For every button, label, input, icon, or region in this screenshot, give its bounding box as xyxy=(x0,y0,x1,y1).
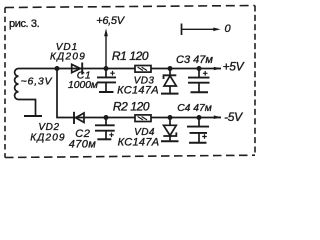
svg-text:+6,5V: +6,5V xyxy=(96,15,126,27)
svg-text:1000м: 1000м xyxy=(68,80,98,91)
zener diode VD3 КС147А xyxy=(117,69,176,97)
ground (transformer) xyxy=(24,115,42,117)
node junction VD3 xyxy=(168,66,173,71)
diode VD2 xyxy=(30,112,84,144)
svg-text:C4 47м: C4 47м xyxy=(177,103,212,114)
svg-text:рис. 3.: рис. 3. xyxy=(9,18,40,30)
svg-text:КД209: КД209 xyxy=(50,51,86,62)
svg-text:КС147А: КС147А xyxy=(118,136,160,148)
capacitor C2 470м xyxy=(69,118,115,151)
svg-text:КС147А: КС147А xyxy=(117,85,159,97)
transformer winding T1 secondary xyxy=(15,69,19,100)
capacitor C3 xyxy=(188,69,210,92)
svg-text:+5V: +5V xyxy=(223,60,245,74)
svg-text:-5V: -5V xyxy=(224,110,243,124)
+6,5V arrow xyxy=(96,15,126,68)
ground (C1) xyxy=(99,91,114,93)
node junction C3 xyxy=(197,66,202,71)
wire winding bottom to ground xyxy=(19,100,36,116)
resistor R1 120 xyxy=(112,49,151,72)
resistor R2 120 xyxy=(113,99,151,121)
ground (VD4) xyxy=(161,140,179,142)
svg-text:0: 0 xyxy=(224,23,231,35)
ground (VD3) xyxy=(161,93,179,95)
node junction C1 xyxy=(104,66,109,71)
-5V output arrow xyxy=(214,110,243,124)
capacitor C4 xyxy=(187,118,209,143)
node junction C2 xyxy=(104,115,109,120)
svg-text:470м: 470м xyxy=(69,139,97,151)
wire bottom rail xyxy=(74,117,221,119)
svg-text:~6,3V: ~6,3V xyxy=(21,76,53,88)
svg-text:R1 120: R1 120 xyxy=(112,49,149,63)
diode VD1 xyxy=(50,42,86,75)
ground (C4) xyxy=(189,142,207,144)
wire vertical branch to VD2 xyxy=(57,69,74,118)
node junction VD4 xyxy=(168,115,173,120)
ground (C3) xyxy=(191,91,209,93)
+5V output arrow xyxy=(214,60,245,74)
zero axis marker xyxy=(182,23,232,35)
capacitor C1 1000м xyxy=(68,69,116,92)
dashed frame border xyxy=(5,6,255,158)
ground (C2) xyxy=(97,138,111,140)
svg-text:R2 120: R2 120 xyxy=(113,99,150,113)
svg-text:КД209: КД209 xyxy=(30,132,66,143)
wire top rail xyxy=(19,68,222,70)
zener diode VD4 КС147А xyxy=(118,118,177,149)
node junction top-left xyxy=(55,66,60,71)
node junction C4 xyxy=(197,115,202,120)
svg-text:C3 47м: C3 47м xyxy=(176,54,213,66)
